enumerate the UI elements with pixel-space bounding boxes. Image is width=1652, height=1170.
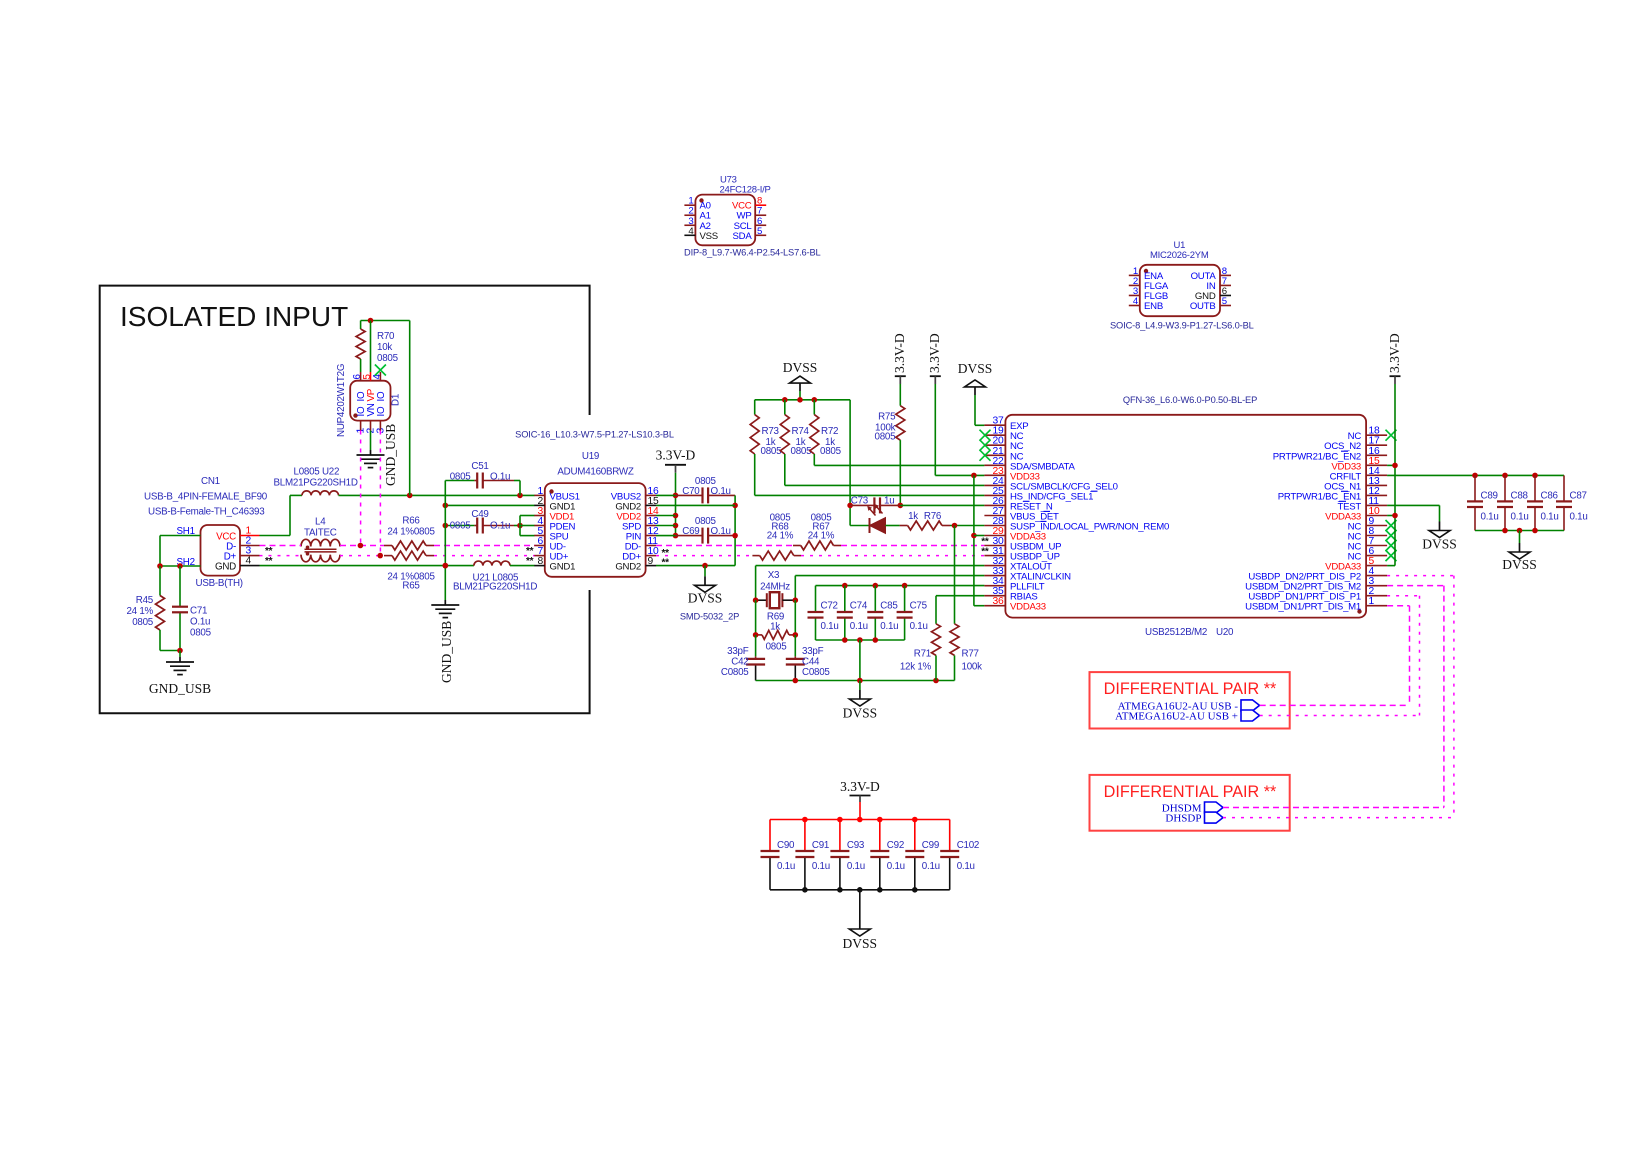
capacitor C92 xyxy=(879,820,881,852)
svg-text:DVSS: DVSS xyxy=(1422,537,1457,552)
svg-text:GND: GND xyxy=(215,562,236,573)
svg-text:DIFFERENTIAL PAIR **: DIFFERENTIAL PAIR ** xyxy=(1104,680,1277,698)
wire gnd vertical to GND_USB 2 xyxy=(444,481,446,601)
wire XTALIN xyxy=(795,575,984,577)
ground GND_USB 1 xyxy=(179,657,181,662)
svg-text:33pF: 33pF xyxy=(802,646,824,657)
wire DVSS net down to C73/LED xyxy=(849,400,851,526)
svg-text:USB-B-Female-TH_C46393: USB-B-Female-TH_C46393 xyxy=(148,507,265,518)
capacitor C91 xyxy=(804,820,806,852)
wire dashed D1 IO pins to D-/D+ xyxy=(360,431,362,546)
svg-text:OUTB: OUTB xyxy=(1190,301,1216,312)
svg-text:9: 9 xyxy=(648,556,654,567)
isolator U19 ADUM4160BRWZ xyxy=(545,483,646,577)
svg-text:ADUM4160BRWZ: ADUM4160BRWZ xyxy=(557,467,634,478)
wire bank bottom rail xyxy=(770,889,950,891)
svg-text:BLM21PG220SH1D: BLM21PG220SH1D xyxy=(274,478,358,489)
svg-text:C74: C74 xyxy=(850,601,868,612)
wire VDDA33 pin10 xyxy=(1387,515,1395,517)
ground GND_USB 2 xyxy=(444,600,446,605)
svg-text:0.1u: 0.1u xyxy=(777,861,795,872)
svg-text:C51: C51 xyxy=(471,461,488,472)
capacitor C73 xyxy=(850,504,874,506)
svg-text:0.1u: 0.1u xyxy=(821,621,839,632)
resistor R66 xyxy=(384,545,392,547)
usb hub U20 USB2512B/M2 xyxy=(1005,415,1366,618)
capacitor C93 xyxy=(839,820,841,852)
svg-text:VSS: VSS xyxy=(700,231,718,242)
wire XTALOUT xyxy=(756,565,985,567)
svg-text:C92: C92 xyxy=(887,840,904,851)
svg-text:24MHz: 24MHz xyxy=(760,582,790,593)
svg-text:D1: D1 xyxy=(391,394,402,406)
wire to GND_USB xyxy=(160,650,180,652)
svg-text:ATMEGA16U2-AU USB +: ATMEGA16U2-AU USB + xyxy=(1115,710,1238,722)
svg-text:O.1u: O.1u xyxy=(490,472,510,483)
capacitor C74 xyxy=(844,586,846,612)
svg-text:100k: 100k xyxy=(962,662,983,673)
svg-text:0.1u: 0.1u xyxy=(1541,512,1559,523)
wire R75 to RESET_N xyxy=(898,503,904,509)
wire R74 to SCL xyxy=(785,484,985,486)
wire VCC to VBUS xyxy=(260,535,291,537)
resistor R72 xyxy=(813,400,815,415)
ground DVSS below caps xyxy=(1519,531,1521,544)
svg-text:ENB: ENB xyxy=(1144,301,1163,312)
svg-text:USBDM_DN1/PRT_DIS_M1: USBDM_DN1/PRT_DIS_M1 xyxy=(1245,602,1361,613)
capacitor C70 xyxy=(676,494,703,496)
svg-text:3.3V-D: 3.3V-D xyxy=(840,779,880,794)
wire R76 to SUSP_IND xyxy=(950,525,984,527)
svg-text:SMD-5032_2P: SMD-5032_2P xyxy=(680,612,739,622)
svg-text:0.1u: 0.1u xyxy=(887,861,905,872)
svg-text:SDA: SDA xyxy=(733,231,753,242)
capacitor C44 xyxy=(794,635,796,657)
svg-text:R77: R77 xyxy=(962,649,979,660)
svg-text:DVSS: DVSS xyxy=(958,361,993,376)
svg-text:NUP4202W1T2G: NUP4202W1T2G xyxy=(336,364,347,437)
svg-text:C75: C75 xyxy=(910,601,928,612)
svg-text:C93: C93 xyxy=(847,840,865,851)
resistor R77 xyxy=(954,526,956,624)
wire to pin 23 and VDDA33 pins xyxy=(935,474,984,476)
svg-text:SOIC-8_L4.9-W3.9-P1.27-LS6.0-B: SOIC-8_L4.9-W3.9-P1.27-LS6.0-BL xyxy=(1110,321,1254,331)
ground DVSS below crystal xyxy=(859,681,861,691)
frame ISOLATED INPUT box xyxy=(100,286,590,714)
annotation box DIFFERENTIAL PAIR 1 xyxy=(1090,672,1290,728)
wire VBUS to U19 pin1 xyxy=(339,494,535,496)
wire right rail of C70/C69 xyxy=(734,495,736,565)
svg-text:R75: R75 xyxy=(878,412,896,423)
wire DVSS net xyxy=(755,399,850,401)
svg-text:0.1u: 0.1u xyxy=(812,861,830,872)
ferrite bead U22 xyxy=(302,491,339,496)
svg-text:C72: C72 xyxy=(821,601,838,612)
svg-text:C69: C69 xyxy=(682,526,699,537)
svg-text:C42: C42 xyxy=(731,657,748,668)
port flag ATMEGA16U2-AU USB - xyxy=(1241,700,1260,711)
svg-text:24 1%: 24 1% xyxy=(767,531,794,542)
wire GND CN1 to U21 xyxy=(260,565,474,567)
svg-text:ISOLATED INPUT: ISOLATED INPUT xyxy=(120,301,348,332)
svg-text:DIP-8_L9.7-W6.4-P2.54-LS7.6-BL: DIP-8_L9.7-W6.4-P2.54-LS7.6-BL xyxy=(684,247,821,257)
capacitor C72 xyxy=(815,586,817,612)
capacitor C69 xyxy=(676,535,703,537)
wire dashed DHSDP to pin4 xyxy=(1223,817,1454,819)
svg-text:C0805: C0805 xyxy=(802,667,830,678)
capacitor C71 xyxy=(179,566,181,607)
svg-text:U20: U20 xyxy=(1216,627,1234,638)
wire cap bank bottom xyxy=(816,639,905,641)
svg-text:C99: C99 xyxy=(922,840,939,851)
capacitor C89 xyxy=(1474,475,1476,501)
svg-text:0805: 0805 xyxy=(450,472,472,483)
capacitor C86 xyxy=(1534,475,1536,501)
svg-text:C85: C85 xyxy=(880,601,898,612)
svg-text:R66: R66 xyxy=(402,516,420,527)
ferrite bead U21 xyxy=(474,561,510,566)
svg-text:MIC2026-2YM: MIC2026-2YM xyxy=(1150,250,1209,261)
svg-text:C44: C44 xyxy=(802,657,820,668)
svg-text:24 1%: 24 1% xyxy=(808,531,835,542)
annotation box DIFFERENTIAL PAIR 2 xyxy=(1090,775,1290,831)
svg-text:**: ** xyxy=(662,558,670,569)
svg-text:IO: IO xyxy=(376,406,387,416)
capacitor C49 xyxy=(445,525,474,527)
led D xyxy=(850,525,869,527)
svg-text:QFN-36_L6.0-W6.0-P0.50-BL-EP: QFN-36_L6.0-W6.0-P0.50-BL-EP xyxy=(1123,395,1257,405)
svg-text:4: 4 xyxy=(372,374,383,380)
svg-text:C71: C71 xyxy=(190,606,207,617)
svg-text:L0805 U22: L0805 U22 xyxy=(294,467,340,478)
wire DVSS bottom rail xyxy=(756,680,955,682)
svg-text:C87: C87 xyxy=(1570,491,1587,502)
wire R70 top to VBUS xyxy=(361,320,410,322)
svg-text:0.1u: 0.1u xyxy=(1570,512,1588,523)
svg-text:0805: 0805 xyxy=(820,446,842,457)
wire D1 VN to ground xyxy=(370,431,372,451)
svg-text:C88: C88 xyxy=(1511,491,1529,502)
svg-text:L4: L4 xyxy=(315,517,326,528)
svg-text:5: 5 xyxy=(1222,296,1227,307)
svg-text:C73: C73 xyxy=(851,496,869,507)
capacitor C88 xyxy=(1504,475,1506,501)
capacitor C85 xyxy=(874,586,876,612)
svg-text:USB-B(TH): USB-B(TH) xyxy=(196,578,243,589)
eeprom U73 24FC128-I/P xyxy=(695,195,755,246)
resistor R71 xyxy=(935,596,937,624)
svg-text:DHSDP: DHSDP xyxy=(1165,813,1201,825)
svg-text:0805: 0805 xyxy=(766,642,788,653)
svg-text:GND_USB: GND_USB xyxy=(149,681,211,696)
connector CN1 USB-B xyxy=(201,525,241,576)
svg-text:1k: 1k xyxy=(770,622,780,633)
resistor R76 xyxy=(900,525,908,527)
wire dashed DHSDM to pin3 xyxy=(1223,807,1444,809)
svg-text:3.3V-D: 3.3V-D xyxy=(656,448,696,463)
port flag DHSDM xyxy=(1205,802,1224,813)
svg-text:8: 8 xyxy=(538,556,544,567)
svg-text:R72: R72 xyxy=(821,426,838,437)
wire dashed to U20 USBDM_UP/USBDP_UP xyxy=(841,545,984,547)
svg-text:12k 1%: 12k 1% xyxy=(900,662,932,673)
ground DVSS at U19 GND2 xyxy=(704,566,706,577)
resistor R75 xyxy=(896,406,905,440)
svg-text:R45: R45 xyxy=(136,595,154,606)
ground DVSS bottom bank xyxy=(859,890,861,920)
port flag DHSDP xyxy=(1205,812,1224,823)
wire dashed USBDP_DN1 xyxy=(1387,595,1419,597)
svg-text:C0805: C0805 xyxy=(721,667,749,678)
svg-text:0805: 0805 xyxy=(132,617,154,628)
svg-text:0.1u: 0.1u xyxy=(922,861,940,872)
resistor R67 xyxy=(801,541,834,550)
port flag ATMEGA16U2-AU USB + xyxy=(1241,710,1260,721)
svg-text:0.1u: 0.1u xyxy=(880,621,898,632)
svg-text:1u: 1u xyxy=(884,496,894,507)
svg-text:0805: 0805 xyxy=(450,520,472,531)
svg-text:DVSS: DVSS xyxy=(783,360,818,375)
wire D- dashed L4 to R66 xyxy=(340,545,384,547)
capacitor C75 xyxy=(904,586,906,612)
svg-text:1: 1 xyxy=(1369,596,1375,607)
svg-text:SOIC-16_L10.3-W7.5-P1.27-LS10.: SOIC-16_L10.3-W7.5-P1.27-LS10.3-BL xyxy=(515,430,674,440)
wire dashed DD-/DD+ to R67/R68 xyxy=(656,545,793,547)
svg-text:USB2512B/M2: USB2512B/M2 xyxy=(1145,627,1207,638)
wire dashed usb- to pin1 xyxy=(1260,704,1410,706)
capacitor C99 xyxy=(914,820,916,852)
svg-text:24 1%0805: 24 1%0805 xyxy=(387,527,435,538)
svg-text:DIFFERENTIAL PAIR **: DIFFERENTIAL PAIR ** xyxy=(1104,783,1277,801)
svg-text:O.1u: O.1u xyxy=(490,520,510,531)
svg-text:5: 5 xyxy=(757,226,762,237)
wire dashed usb+ to pin2 xyxy=(1260,715,1420,717)
resistor R68 xyxy=(760,551,794,560)
resistor R74 xyxy=(784,400,786,415)
svg-text:C89: C89 xyxy=(1481,491,1498,502)
resistor R70 xyxy=(360,321,362,330)
wire R73 to HS_IND xyxy=(755,494,985,496)
wire U19 GND1 pin2 xyxy=(445,504,534,506)
ground GND_USB near D1 xyxy=(370,450,372,455)
svg-text:BLM21PG220SH1D: BLM21PG220SH1D xyxy=(453,582,537,593)
svg-text:C86: C86 xyxy=(1541,491,1559,502)
resistor R65 xyxy=(384,555,392,557)
wire dashed USBDM_DN2 xyxy=(1387,585,1444,587)
svg-text:0805: 0805 xyxy=(791,446,813,457)
wire dashed USBDM_DN1 xyxy=(1387,605,1409,607)
capacitor C102 xyxy=(949,820,951,852)
svg-text:CN1: CN1 xyxy=(201,476,220,487)
svg-text:24 1%: 24 1% xyxy=(126,606,153,617)
wire bank top rail xyxy=(770,819,950,821)
svg-text:33pF: 33pF xyxy=(727,646,749,657)
svg-text:C90: C90 xyxy=(777,840,795,851)
svg-text:O.1u: O.1u xyxy=(190,617,210,628)
svg-text:0805: 0805 xyxy=(190,628,212,639)
svg-text:DVSS: DVSS xyxy=(688,591,723,606)
svg-text:0.1u: 0.1u xyxy=(847,861,865,872)
svg-text:36: 36 xyxy=(993,596,1004,607)
wire dashed R66 to U19 UD- xyxy=(434,545,535,547)
svg-text:GND1: GND1 xyxy=(550,562,576,573)
capacitor C90 xyxy=(769,820,771,852)
svg-text:DVSS: DVSS xyxy=(843,936,878,951)
wire SH1/SH2 to ground xyxy=(160,535,201,537)
resistor R69 xyxy=(755,600,757,635)
svg-text:0.1u: 0.1u xyxy=(957,861,975,872)
svg-text:IO: IO xyxy=(376,391,387,401)
wire VDDA33 pin5 xyxy=(1387,565,1395,567)
power switch U1 MIC2026-2YM xyxy=(1140,265,1220,316)
svg-text:O.1u: O.1u xyxy=(711,486,731,497)
svg-text:VDDA33: VDDA33 xyxy=(1010,602,1046,613)
svg-text:0805: 0805 xyxy=(761,446,783,457)
svg-text:1k: 1k xyxy=(908,511,918,522)
svg-text:DVSS: DVSS xyxy=(843,706,878,721)
svg-text:USB-B_4PIN-FEMALE_BF90: USB-B_4PIN-FEMALE_BF90 xyxy=(144,492,268,503)
svg-text:3.3V-D: 3.3V-D xyxy=(1387,333,1402,373)
svg-text:O.1u: O.1u xyxy=(711,526,731,537)
svg-text:C102: C102 xyxy=(957,840,979,851)
overline marks on U20 active-low pins xyxy=(1091,490,1098,492)
svg-text:3.3V-D: 3.3V-D xyxy=(927,333,942,373)
wire VDD33 pin15 xyxy=(1387,464,1395,466)
resistor R73 xyxy=(754,400,756,415)
wire PLLFILT rail xyxy=(816,585,985,587)
capacitor C51 xyxy=(445,480,474,482)
wire D- dashed CN1 to L4 xyxy=(260,545,302,547)
svg-text:R76: R76 xyxy=(924,511,942,522)
no-connect X on D1 pin 4 xyxy=(375,365,386,376)
svg-text:0805: 0805 xyxy=(377,353,399,364)
svg-text:24FC128-I/P: 24FC128-I/P xyxy=(720,184,771,195)
wire VDD1/PDEN/SPU bracket xyxy=(519,516,521,536)
svg-text:C70: C70 xyxy=(682,486,700,497)
resistor R45 xyxy=(159,566,161,596)
svg-text:R65: R65 xyxy=(402,581,420,592)
svg-text:0.1u: 0.1u xyxy=(850,621,868,632)
svg-text:R73: R73 xyxy=(762,426,780,437)
svg-text:R70: R70 xyxy=(377,331,395,342)
svg-text:C49: C49 xyxy=(471,509,488,520)
wire cap bank bottom right xyxy=(1475,530,1564,532)
diode array D1 NUP4202W1T2G xyxy=(350,381,390,421)
svg-text:R74: R74 xyxy=(792,426,810,437)
capacitor C87 xyxy=(1563,475,1565,501)
wire VBUS2 rail xyxy=(675,495,677,535)
wire dashed USBDP_DN2 xyxy=(1387,575,1454,577)
wire CRFILT to cap bank xyxy=(1387,474,1564,476)
wire R72 to SDA xyxy=(814,464,984,466)
svg-text:0805: 0805 xyxy=(875,432,897,443)
svg-text:GND2: GND2 xyxy=(615,562,641,573)
capacitor C42 xyxy=(755,635,757,657)
svg-text:10k: 10k xyxy=(377,342,392,353)
svg-text:DVSS: DVSS xyxy=(1502,557,1537,572)
svg-text:R71: R71 xyxy=(914,649,931,660)
svg-text:X3: X3 xyxy=(768,570,780,581)
svg-text:U19: U19 xyxy=(582,451,599,462)
ground DVSS at TEST xyxy=(1387,504,1439,506)
wire R71 to RBIAS xyxy=(936,595,984,597)
svg-text:GND_USB: GND_USB xyxy=(383,424,398,486)
svg-text:0.1u: 0.1u xyxy=(910,621,928,632)
svg-text:4: 4 xyxy=(246,556,252,567)
svg-text:GND_USB: GND_USB xyxy=(439,621,454,683)
svg-text:3.3V-D: 3.3V-D xyxy=(892,333,907,373)
svg-text:TAITEC: TAITEC xyxy=(304,528,337,539)
svg-text:0.1u: 0.1u xyxy=(1481,512,1499,523)
svg-text:C91: C91 xyxy=(812,840,829,851)
svg-text:0.1u: 0.1u xyxy=(1511,512,1529,523)
